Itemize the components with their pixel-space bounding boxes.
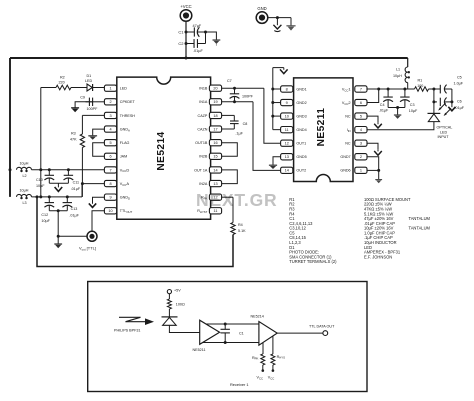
svg-text:CAZP: CAZP [198, 114, 208, 118]
U1 pin 20 box [209, 85, 221, 91]
resistor 100ohm [167, 299, 185, 309]
svg-text:10µH: 10µH [20, 162, 29, 166]
wire pin20 drop [264, 88, 281, 143]
wire left rail [9, 58, 11, 197]
svg-text:10: 10 [285, 115, 289, 119]
svg-text:R2: R2 [60, 75, 65, 79]
svg-text:3: 3 [109, 114, 111, 118]
node Vout [57, 235, 60, 238]
capacitor C9 [80, 96, 98, 111]
wire photodiode to pin4 [367, 122, 434, 130]
capacitor C10 [36, 170, 54, 188]
svg-text:TANTALUM: TANTALUM [409, 216, 431, 221]
node R3-VccA [81, 182, 84, 185]
node C1-right [204, 31, 207, 34]
ground (U2 bus) [280, 68, 288, 74]
svg-text:12: 12 [285, 142, 289, 146]
svg-text:THRESH: THRESH [120, 114, 135, 118]
svg-text:L3: L3 [23, 201, 27, 205]
svg-text:NE5214: NE5214 [251, 315, 264, 319]
svg-text:10µH: 10µH [20, 189, 29, 193]
terminal GND [256, 6, 268, 23]
wire VCC bus [10, 57, 408, 59]
label Vcc right [268, 376, 275, 381]
svg-text:7: 7 [109, 168, 111, 172]
U2 pin 13 box [281, 154, 293, 160]
ground (pin5) [374, 123, 382, 128]
node VCC bus [185, 57, 188, 60]
U1 pin 1 label [120, 87, 128, 91]
label Vout [79, 245, 96, 251]
wire pin2 drop [367, 157, 379, 171]
U1 pin 1 box [104, 85, 116, 91]
svg-text:NEXT.GR: NEXT.GR [196, 190, 277, 210]
node U2 bus pin8 [271, 88, 274, 91]
svg-text:220: 220 [59, 81, 65, 85]
svg-text:OUT2: OUT2 [296, 169, 306, 173]
svg-text:NE5211: NE5211 [316, 108, 327, 147]
resistor Rpk [252, 354, 265, 365]
wire C5 right drop [451, 89, 453, 102]
U1 pin 12 label [201, 196, 208, 201]
U1 pin 18 label [198, 114, 208, 118]
wire pin5 nc gnd [367, 116, 378, 123]
wire VccA riser [81, 184, 83, 197]
U2 pin 4 box [355, 127, 367, 133]
U2 pin 4 label [347, 128, 351, 133]
svg-text:TANTALUM: TANTALUM [409, 226, 431, 231]
U2 pin 5 label [345, 115, 351, 119]
terminal +VCC [180, 4, 192, 21]
U1 pin 16 label [195, 141, 208, 145]
wire pin5-pin6 jumper [93, 143, 105, 157]
svg-text:C12: C12 [41, 213, 48, 217]
capacitor C12 [41, 197, 54, 223]
svg-text:D1: D1 [87, 74, 92, 78]
svg-text:IN2B: IN2B [199, 155, 208, 159]
capacitor C1 (receiver) [221, 324, 244, 343]
wire U2 pin10 gnd [273, 115, 281, 117]
wire C12-C13 bus [49, 210, 67, 212]
wire pin1 row [367, 169, 379, 171]
svg-text:13: 13 [213, 182, 217, 186]
svg-text:C11: C11 [73, 180, 80, 184]
U1 pin 8 box [104, 180, 116, 186]
inductor L2 [17, 162, 32, 178]
resistor R1 [415, 79, 429, 92]
wire GND stub2 [290, 18, 292, 26]
node GND wire [276, 16, 279, 19]
svg-text:GND3: GND3 [296, 115, 306, 119]
svg-text:100Ω: 100Ω [176, 303, 185, 307]
wire VCC drop [185, 21, 187, 58]
U1 name [156, 131, 167, 170]
ground (C1/C2) [213, 40, 221, 46]
node C11 top [67, 168, 70, 171]
svg-text:LED: LED [85, 79, 93, 83]
U1 pin 5 box [104, 140, 116, 146]
wire amp2 out [277, 332, 323, 334]
svg-text:47K: 47K [70, 137, 77, 141]
U2 pin 7 label [342, 86, 352, 92]
wire C10-C11 bus [49, 182, 68, 184]
node pin1-pin2 [377, 169, 380, 172]
wire pin17 stub [222, 128, 235, 130]
terminal Vout [87, 231, 97, 241]
wire C4-C3 bus [388, 107, 405, 109]
svg-text:GND5: GND5 [296, 155, 306, 159]
U1 pin 2 box [104, 99, 116, 105]
svg-text:+VCC: +VCC [180, 4, 191, 9]
svg-text:100PF: 100PF [242, 95, 254, 99]
svg-text:C9: C9 [80, 96, 85, 100]
wire C9-gnd [75, 102, 89, 106]
wire R1-C5 [429, 88, 441, 90]
ground (GND 2) [286, 25, 295, 30]
svg-text:100: 100 [417, 84, 423, 88]
node R4 rail [36, 195, 39, 198]
svg-text:10µH: 10µH [393, 74, 402, 78]
U1 pin 17 label [197, 127, 207, 131]
capacitor C8 [230, 115, 247, 135]
U1 pin 19 box [209, 99, 221, 105]
U2 pin 12 box [281, 140, 293, 146]
U2 pin 1 box [355, 167, 367, 173]
inductor L1 [393, 58, 410, 89]
U2 pin 2 label [340, 155, 350, 159]
U1 pin 20 label [199, 87, 208, 91]
ground (pin3) [374, 150, 382, 155]
inductor L3 [17, 189, 32, 205]
U2 pin 6 box [355, 99, 367, 105]
svg-text:19: 19 [213, 100, 217, 104]
ground (pin9 GND_D) [89, 197, 105, 207]
wire diode to amp1 [169, 325, 199, 332]
U1 pin 12 box [209, 194, 221, 200]
node A [432, 88, 435, 91]
resistor R4 [231, 223, 246, 235]
svg-text:NE5211: NE5211 [193, 348, 206, 352]
svg-text:LED: LED [120, 87, 128, 91]
U1 pin 10 box [104, 208, 116, 214]
svg-text:GND2: GND2 [296, 101, 306, 105]
wire pin16-pin15 jumper [222, 143, 238, 157]
svg-text:100PF: 100PF [87, 107, 99, 111]
svg-text:2: 2 [360, 155, 362, 159]
U2 name [316, 108, 327, 147]
svg-text:.01µF: .01µF [71, 187, 81, 191]
svg-text:16: 16 [213, 141, 217, 145]
svg-text:.01µF: .01µF [455, 106, 465, 110]
svg-text:FLAG: FLAG [120, 141, 130, 145]
svg-text:CPKDET: CPKDET [120, 100, 136, 104]
wire nodeA drop [433, 89, 435, 113]
U2 pin 3 box [355, 140, 367, 146]
wire pin1 gnd stub [378, 170, 380, 179]
U1 pin 5 label [120, 141, 130, 145]
light arrow [119, 317, 154, 325]
svg-text:TURRET TERMINALS (2): TURRET TERMINALS (2) [289, 259, 337, 264]
wire L3 row [32, 196, 83, 198]
node C4/C3 gnd [396, 106, 399, 109]
node C12 bus [57, 209, 60, 212]
U2 pin 12 label [296, 142, 306, 146]
svg-text:2: 2 [109, 100, 111, 104]
svg-text:1: 1 [109, 87, 111, 91]
capacitor C6 [434, 98, 465, 110]
svg-text:C5: C5 [457, 75, 462, 79]
U1 pin 16 box [209, 140, 221, 146]
svg-text:LED: LED [440, 130, 448, 134]
wire R2 rail [40, 88, 42, 197]
wire Vcc1 row [367, 88, 415, 90]
wire bus to Vout node [57, 211, 59, 237]
svg-text:GND: GND [257, 6, 266, 11]
wire U2 pin9 gnd [273, 102, 281, 104]
U1 pin 15 label [199, 155, 208, 159]
U1 pin 11 label [197, 209, 207, 214]
U1 pin 9 box [104, 194, 116, 200]
photodiode D2 [428, 113, 441, 121]
U2 pin 1 label [340, 169, 350, 173]
U1 pin 13 box [209, 180, 221, 186]
svg-text:14: 14 [213, 168, 217, 172]
U2 pin 9 label [296, 101, 306, 105]
svg-text:18: 18 [213, 114, 217, 118]
U1 pin 18 box [209, 112, 221, 118]
wire Rhys end [272, 365, 275, 372]
terminal +5V [167, 288, 181, 293]
U1 pin 3 box [104, 112, 116, 118]
wire R2-D1 [71, 87, 87, 89]
node C3 top [403, 88, 406, 91]
node VCC-C1 [185, 31, 188, 34]
U1 pin 8 label [120, 181, 130, 187]
ground (C4/C3) [394, 108, 401, 119]
svg-text:R3: R3 [71, 132, 76, 136]
wire pin12 stub [222, 196, 233, 198]
node A2 [432, 100, 435, 103]
svg-text:C2: C2 [178, 41, 184, 46]
U1 pin 11 box [209, 208, 221, 214]
wire Rpk end [262, 365, 265, 372]
wire amp1 out bottom [203, 342, 259, 344]
wire R3 top [81, 115, 83, 134]
svg-text:TTL DATA OUT: TTL DATA OUT [309, 324, 335, 328]
capacitor C13 [62, 197, 79, 218]
wire R4 top [232, 197, 234, 222]
terminal TTL data out [309, 324, 335, 335]
capacitor C7 [227, 79, 254, 102]
photodiode BPF31 [114, 317, 178, 333]
node R2 rail top [39, 168, 42, 171]
U1 pin 9 label [120, 196, 130, 201]
svg-text:10: 10 [108, 209, 112, 213]
node C13 top [66, 195, 69, 198]
U2 pin 14 box [281, 167, 293, 173]
svg-text:C1: C1 [239, 331, 244, 335]
U1 pin 13 label [199, 182, 208, 186]
svg-text:C7: C7 [227, 79, 232, 83]
svg-text:10µF: 10µF [409, 109, 418, 113]
svg-text:8: 8 [286, 87, 288, 91]
svg-text:R4: R4 [238, 223, 243, 227]
svg-text:GND1: GND1 [296, 87, 306, 91]
U2 pin 10 label [296, 115, 306, 119]
light arrows [438, 103, 451, 116]
U1 pin 4 box [104, 126, 116, 132]
wire amp1 out top [206, 323, 259, 325]
svg-text:9: 9 [109, 196, 111, 200]
node R2 rail bottom [39, 195, 42, 198]
wire R2 row left [41, 87, 56, 89]
svg-text:7: 7 [360, 87, 362, 91]
node C1r bottom [224, 341, 227, 344]
U1 pin 3 label [120, 114, 135, 118]
svg-text:.01µF: .01µF [69, 213, 79, 217]
U2 pin 6 label [342, 100, 352, 106]
U2 pin 13 label [296, 155, 306, 159]
svg-text:15: 15 [213, 155, 217, 159]
U1 pin 19 label [199, 100, 208, 104]
resistor Rhys [271, 354, 285, 365]
wire D1-pin1 [93, 87, 105, 89]
svg-text:IN1A: IN1A [199, 100, 208, 104]
svg-text:NC: NC [345, 142, 351, 146]
node C4 top [387, 88, 390, 91]
capacitor C3 [400, 89, 418, 113]
wire R4 bottom loop [37, 197, 233, 267]
ground (C9) [71, 105, 79, 112]
node C7 bottom [233, 100, 236, 103]
U2 pin 3 label [345, 142, 351, 146]
resistor R2 [56, 75, 71, 89]
U2 pin 11 box [281, 127, 293, 133]
U1 pin 6 label [120, 155, 127, 159]
svg-text:JAM: JAM [120, 155, 127, 159]
node C1r top [224, 323, 227, 326]
svg-text:L2: L2 [23, 174, 27, 178]
wire pin18 stub [222, 114, 235, 116]
svg-text:OPTICAL: OPTICAL [437, 126, 453, 130]
svg-text:NE5214: NE5214 [156, 131, 167, 170]
svg-text:E.F. JOHNSON: E.F. JOHNSON [364, 254, 392, 259]
svg-text:20: 20 [213, 87, 217, 91]
ground (Vout) [54, 236, 62, 248]
capacitor C5 [440, 75, 463, 93]
node C6 right [450, 100, 453, 103]
wire VccA row [82, 183, 104, 185]
svg-text:.1µF: .1µF [235, 131, 243, 135]
wire U2 pin8 gnd [273, 88, 281, 90]
node U2 bus pin9 [271, 101, 274, 104]
wire to Vout terminal [58, 235, 87, 237]
U1 pin 7 label [120, 167, 130, 173]
svg-text:C1: C1 [178, 29, 184, 34]
wire GND stub1 [276, 18, 278, 24]
wire pin20 row [222, 87, 264, 89]
label optical led input [437, 126, 453, 140]
svg-text:5: 5 [360, 115, 362, 119]
svg-text:9: 9 [286, 101, 288, 105]
svg-text:1.0µF: 1.0µF [454, 82, 464, 86]
svg-text:14: 14 [285, 169, 289, 173]
ground (pin1/pin2) [375, 179, 382, 183]
diode D1 [85, 74, 93, 91]
svg-text:47µF: 47µF [193, 24, 202, 28]
U2 pin 11 label [296, 128, 306, 132]
svg-text:4: 4 [109, 127, 111, 131]
svg-text:8: 8 [109, 182, 111, 186]
svg-text:CAZN: CAZN [197, 127, 207, 131]
svg-text:5.1K: 5.1K [238, 229, 246, 233]
wire pin3 left [82, 114, 104, 116]
wire pin6 riser [367, 89, 379, 103]
wire C2-C1 join [205, 32, 207, 44]
svg-text:GND4: GND4 [296, 128, 306, 132]
node C7 top [233, 87, 236, 90]
wire Rpk drop [262, 343, 264, 355]
svg-text:R1: R1 [418, 79, 423, 83]
svg-text:C13: C13 [71, 207, 78, 211]
wire C1 to ground [206, 32, 217, 40]
caption [230, 382, 249, 387]
wire U2 pin13 gnd [273, 157, 281, 165]
node left rail L2 [9, 168, 12, 171]
svg-text:IN1B: IN1B [199, 87, 208, 91]
svg-text:L1: L1 [396, 67, 400, 71]
U2 pin 7 box [355, 86, 367, 92]
svg-text:6: 6 [109, 155, 111, 159]
capacitor C1 [178, 24, 205, 37]
svg-text:11: 11 [285, 128, 289, 132]
wire pin10 to Vout [92, 211, 104, 232]
U2 pin 2 box [355, 154, 367, 160]
svg-text:1: 1 [360, 169, 362, 173]
node C12 top [48, 195, 51, 198]
U2 pin 8 label [296, 87, 306, 91]
node VCC-C2 [185, 42, 188, 45]
U1 pin 10 label [120, 209, 133, 214]
capacitor C2 [178, 39, 205, 53]
wire L2 row [32, 169, 105, 171]
ground (pin4 GND_A) [88, 136, 97, 140]
svg-text:.01µF: .01µF [379, 109, 389, 113]
svg-text:+5V: +5V [174, 288, 181, 292]
resistor R3 [70, 132, 85, 148]
ground (C6) [448, 102, 455, 111]
svg-text:5: 5 [109, 141, 111, 145]
op-amp U2 NE5211 body [294, 78, 353, 182]
wire GND right [268, 17, 291, 19]
op-amp U1 NE5214 body [117, 77, 211, 219]
svg-text:C4: C4 [380, 103, 385, 107]
wire Rhys drop [272, 336, 274, 354]
svg-text:10µF: 10µF [41, 219, 50, 223]
wire pin14-pin13 jumper [222, 170, 238, 184]
wire pin3 nc gnd [367, 143, 378, 150]
svg-text:.01µF: .01µF [193, 49, 203, 53]
U1 pin 4 label [120, 127, 130, 132]
svg-text:NC: NC [345, 115, 351, 119]
svg-text:C8: C8 [243, 122, 248, 126]
svg-text:3: 3 [360, 142, 362, 146]
svg-text:INPUT: INPUT [438, 135, 450, 139]
U1 pin 17 box [209, 126, 221, 132]
wire pin2-C9 [97, 101, 105, 103]
svg-text:4: 4 [360, 128, 362, 132]
svg-text:GND6: GND6 [340, 169, 350, 173]
